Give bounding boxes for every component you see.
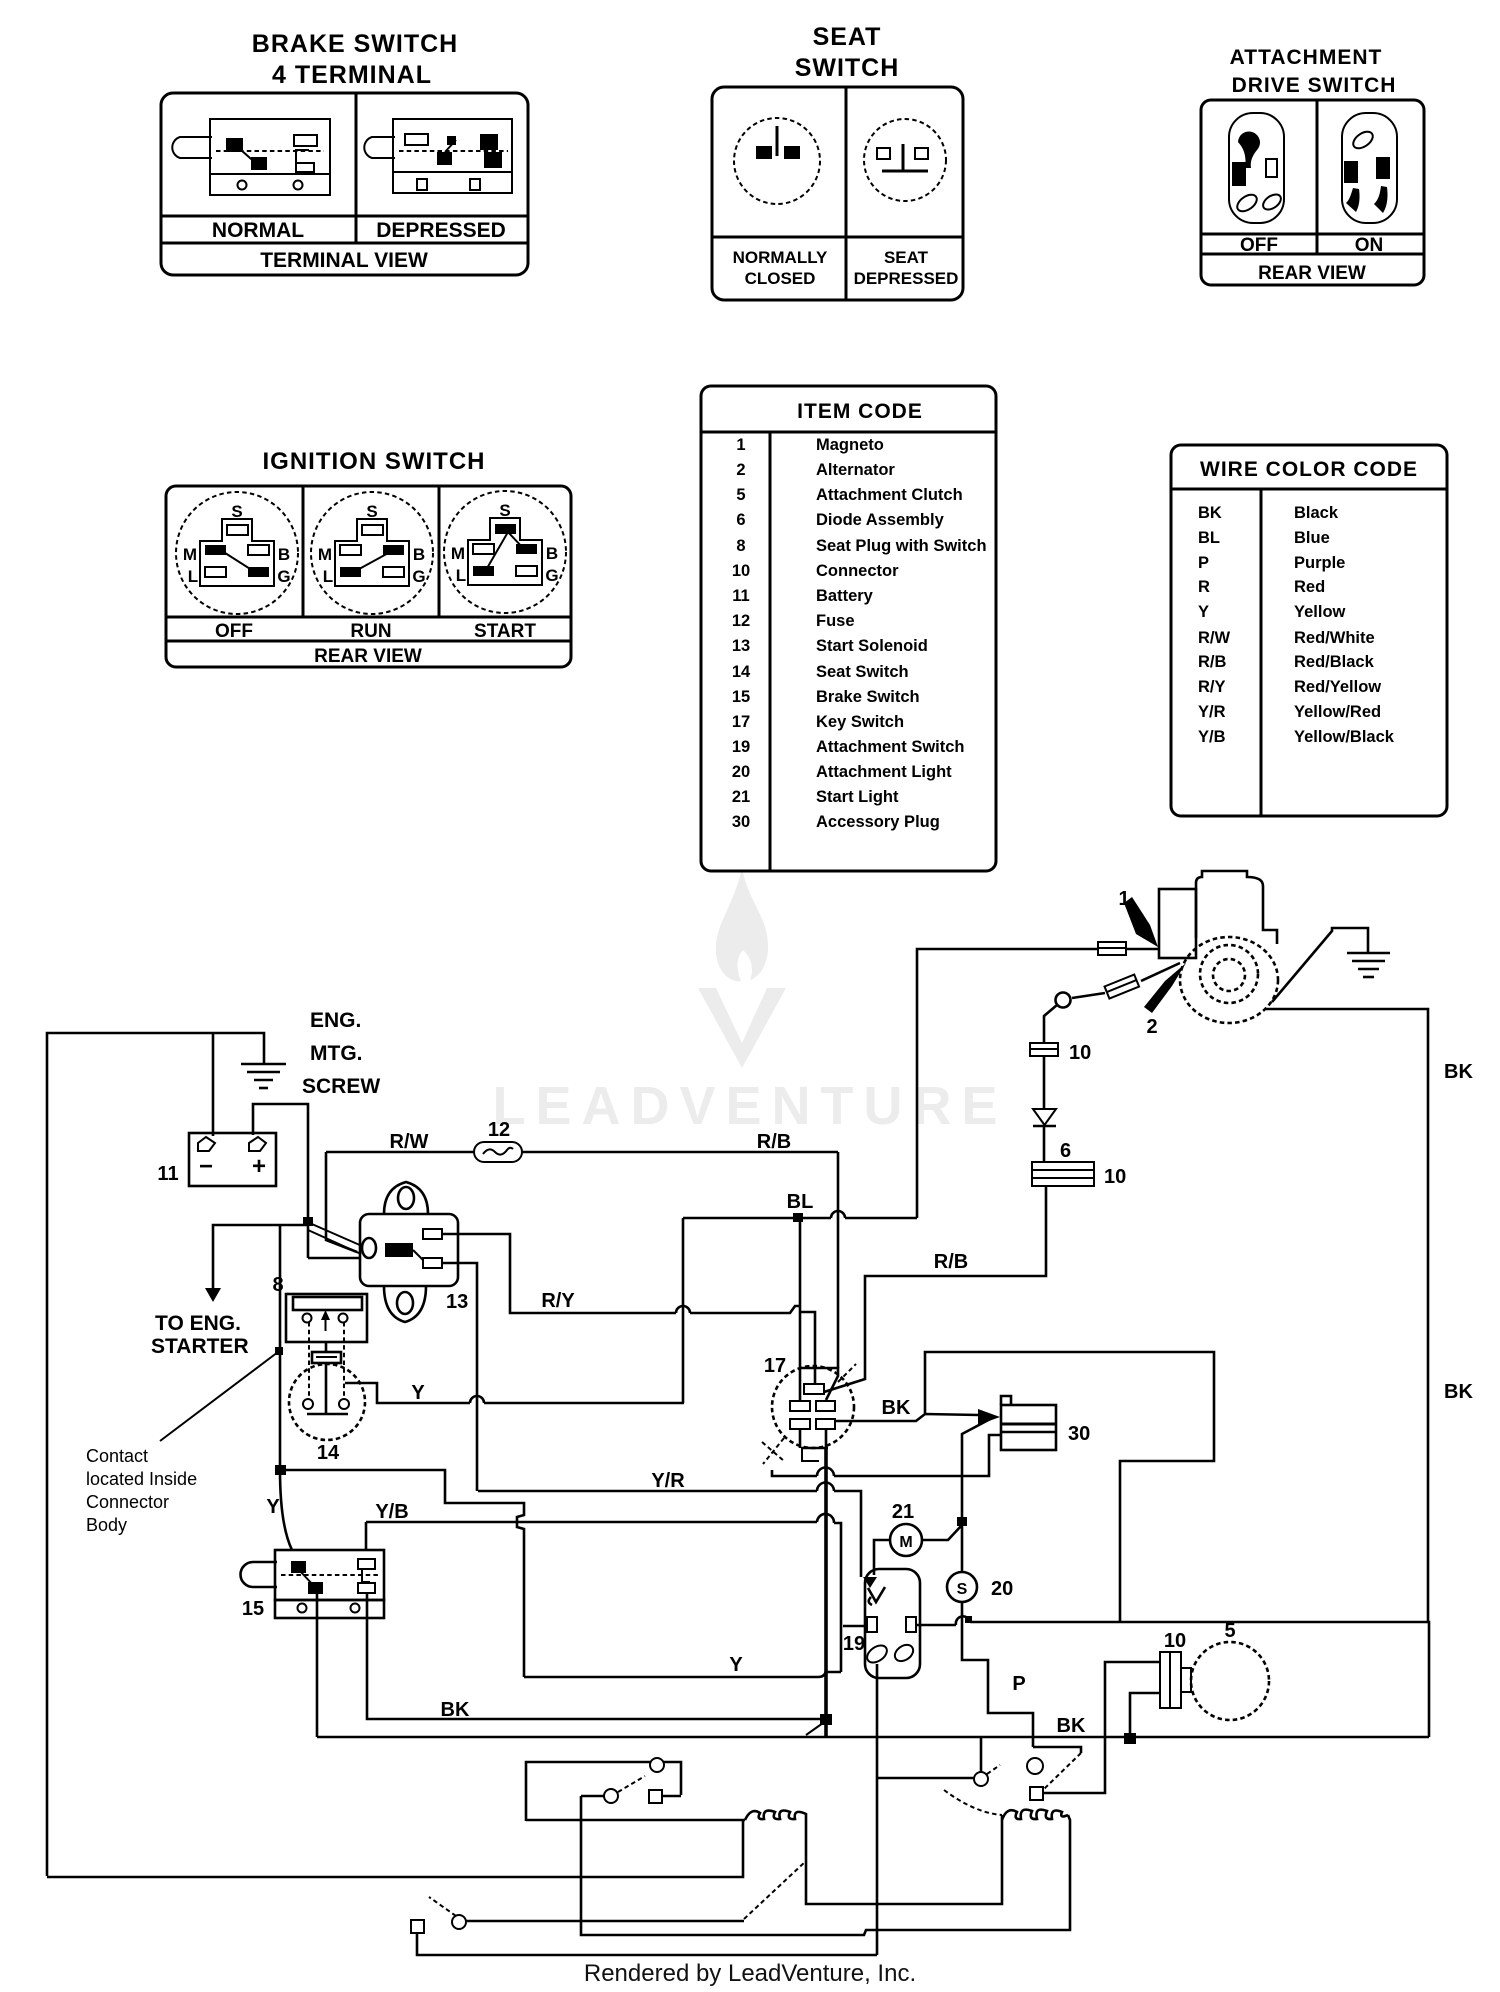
svg-text:30: 30 xyxy=(1068,1423,1090,1445)
wire interlock box bottom xyxy=(526,1819,745,1822)
wire diode to connector 10 lower xyxy=(1043,1126,1046,1162)
svg-text:OFF: OFF xyxy=(215,621,253,642)
svg-text:WIRE COLOR CODE: WIRE COLOR CODE xyxy=(1200,458,1418,481)
wire R/Y xyxy=(442,1234,800,1313)
wire accessory loop xyxy=(925,1352,1214,1622)
item code divider xyxy=(769,432,772,871)
wire coil left down xyxy=(806,1815,1002,1904)
connector 10 upper xyxy=(1030,1043,1058,1056)
wire Y bus xyxy=(524,1669,826,1677)
wire brake lower right BK xyxy=(367,1593,823,1719)
accessory plug 30 xyxy=(1001,1396,1056,1450)
wire color header line xyxy=(1171,488,1447,491)
panel box xyxy=(161,93,528,275)
svg-text:Magneto: Magneto xyxy=(816,436,884,454)
svg-text:5: 5 xyxy=(736,486,745,504)
svg-text:Attachment Light: Attachment Light xyxy=(816,763,952,781)
wire BK bus bottom xyxy=(317,1736,1429,1739)
svg-text:Blue: Blue xyxy=(1294,529,1330,547)
attachment switch OFF icon xyxy=(1229,113,1284,223)
hop Y/R over key ground xyxy=(817,1483,834,1492)
svg-text:Y: Y xyxy=(266,1496,280,1518)
svg-text:NORMAL: NORMAL xyxy=(212,219,304,242)
svg-text:Y/R: Y/R xyxy=(651,1470,685,1492)
engine flywheel hub xyxy=(1213,959,1245,991)
battery cable to solenoid xyxy=(305,1221,362,1254)
wire seat switch to Y bus xyxy=(280,1470,524,1677)
panel box xyxy=(1201,100,1424,285)
svg-text:BK: BK xyxy=(1057,1715,1086,1737)
interlock relay box left xyxy=(526,1758,681,1821)
diode 6 xyxy=(1033,1109,1056,1126)
alternator arrow xyxy=(1144,963,1186,1013)
wire BL to key switch xyxy=(798,1218,800,1401)
svg-text:REAR VIEW: REAR VIEW xyxy=(314,646,422,667)
brake switch NORMAL icon xyxy=(172,119,330,195)
hop shell wire over key ground xyxy=(817,1468,834,1477)
panel box xyxy=(166,486,571,667)
fuse 12 xyxy=(474,1142,522,1162)
svg-text:Y: Y xyxy=(411,1382,425,1404)
item code header line xyxy=(701,431,996,434)
svg-text:ATTACHMENT: ATTACHMENT xyxy=(1230,46,1383,69)
wire battery ground top xyxy=(47,1033,264,1876)
svg-text:M: M xyxy=(451,544,465,563)
wire R/B top xyxy=(837,1152,840,1368)
wire left bus bottom xyxy=(47,1820,743,1877)
wire BK to right interlock xyxy=(980,1737,983,1772)
wire solenoid coil feed xyxy=(308,1152,360,1258)
ignition RUN connector xyxy=(311,492,433,614)
svg-text:11: 11 xyxy=(157,1163,178,1185)
wire Y/B xyxy=(366,1522,869,1672)
svg-text:5: 5 xyxy=(1224,1620,1235,1642)
wire alternator to connector 10 xyxy=(1044,1005,1057,1043)
right interlock relay xyxy=(974,1747,1081,1800)
svg-text:M: M xyxy=(183,545,197,564)
arrow into accessory plug xyxy=(978,1409,1000,1425)
tilted connector on alternator wire xyxy=(1105,975,1140,999)
start solenoid 13 xyxy=(360,1182,458,1322)
svg-text:R/B: R/B xyxy=(757,1131,791,1153)
svg-text:Y: Y xyxy=(729,1654,743,1676)
svg-text:NORMALLY: NORMALLY xyxy=(733,248,828,267)
junction BL xyxy=(793,1213,803,1222)
coil right xyxy=(1002,1810,1068,1820)
svg-text:L: L xyxy=(188,567,198,586)
wire R/W xyxy=(326,1151,838,1154)
svg-text:10: 10 xyxy=(1164,1630,1186,1652)
svg-text:15: 15 xyxy=(732,688,750,706)
svg-text:Y/B: Y/B xyxy=(1198,728,1226,746)
panel divider xyxy=(355,93,358,243)
svg-text:Rendered by LeadVenture, Inc.: Rendered by LeadVenture, Inc. xyxy=(584,1960,916,1987)
attachment clutch connector 10 xyxy=(1160,1652,1191,1708)
svg-text:11: 11 xyxy=(732,587,749,605)
svg-text:located Inside: located Inside xyxy=(86,1469,197,1489)
wire bottom switch square return xyxy=(417,1930,877,1955)
dashed link to coil wire xyxy=(744,1861,806,1919)
junction start light xyxy=(957,1517,967,1526)
seat switch pins dashed xyxy=(309,1322,344,1398)
attachment switch ON icon xyxy=(1342,113,1397,223)
panel row lines xyxy=(166,616,571,619)
svg-text:CLOSED: CLOSED xyxy=(745,269,816,288)
wire to engine starter branch xyxy=(213,1225,308,1290)
svg-text:Accessory Plug: Accessory Plug xyxy=(816,813,940,831)
wire clutch lower to BK xyxy=(1130,1693,1160,1739)
hop Y over solenoid wire xyxy=(470,1396,484,1403)
svg-text:ENG.: ENG. xyxy=(310,1009,361,1032)
svg-text:21: 21 xyxy=(892,1501,914,1523)
svg-text:DEPRESSED: DEPRESSED xyxy=(376,219,506,242)
svg-text:Y/R: Y/R xyxy=(1198,703,1226,721)
svg-text:B: B xyxy=(413,545,425,564)
wire Y solenoid xyxy=(442,1263,477,1491)
svg-text:P: P xyxy=(1012,1673,1025,1695)
svg-text:MTG.: MTG. xyxy=(310,1042,363,1065)
wire R/B alternator branch xyxy=(824,1186,1046,1392)
item code box xyxy=(701,386,996,871)
svg-text:LEADVENTURE: LEADVENTURE xyxy=(492,1076,1007,1136)
battery 11 xyxy=(189,1133,276,1186)
svg-text:Y: Y xyxy=(1198,603,1209,621)
engine block xyxy=(1159,871,1277,958)
svg-text:Yellow/Red: Yellow/Red xyxy=(1294,703,1381,721)
svg-text:BK: BK xyxy=(1444,1381,1473,1403)
ignition START connector xyxy=(444,491,566,613)
alternator diagonal wire xyxy=(1072,963,1180,998)
svg-text:10: 10 xyxy=(732,562,750,580)
svg-text:BK: BK xyxy=(1444,1061,1473,1083)
svg-text:G: G xyxy=(277,567,290,586)
wire brake top right to Y/B xyxy=(365,1522,368,1550)
svg-text:S: S xyxy=(366,502,377,521)
wire attachment switch right pin xyxy=(916,1622,1427,1625)
svg-text:20: 20 xyxy=(991,1578,1013,1600)
svg-text:L: L xyxy=(456,566,466,585)
svg-text:14: 14 xyxy=(732,663,751,681)
attachment light 20 xyxy=(947,1572,977,1602)
svg-text:17: 17 xyxy=(732,713,750,731)
svg-text:TO ENG.: TO ENG. xyxy=(155,1312,241,1335)
svg-text:19: 19 xyxy=(843,1633,865,1655)
svg-text:4 TERMINAL: 4 TERMINAL xyxy=(272,61,432,89)
svg-text:Red/Yellow: Red/Yellow xyxy=(1294,678,1381,696)
ignition OFF connector xyxy=(176,492,298,614)
svg-text:Fuse: Fuse xyxy=(816,612,855,630)
wire start light branch xyxy=(962,1417,994,1573)
svg-text:13: 13 xyxy=(446,1291,468,1313)
svg-text:BL: BL xyxy=(787,1191,814,1213)
svg-text:8: 8 xyxy=(272,1274,283,1296)
svg-text:6: 6 xyxy=(1060,1140,1071,1162)
hop BL over R/B xyxy=(831,1211,845,1218)
seat plug receptacle bars xyxy=(312,1352,341,1363)
svg-text:IGNITION SWITCH: IGNITION SWITCH xyxy=(263,448,486,475)
svg-text:−: − xyxy=(199,1153,213,1180)
wire Y horizontal xyxy=(345,1383,684,1403)
svg-text:R/W: R/W xyxy=(390,1131,429,1153)
svg-text:Black: Black xyxy=(1294,504,1339,522)
wire bottom switch to coil xyxy=(466,1920,744,1923)
svg-text:R/B: R/B xyxy=(1198,653,1227,671)
svg-text:STARTER: STARTER xyxy=(151,1335,249,1358)
svg-text:R: R xyxy=(1198,578,1210,596)
tap key ground to BK bus xyxy=(806,1723,823,1735)
svg-text:R/Y: R/Y xyxy=(541,1290,575,1312)
wire key ground vertical xyxy=(824,1449,828,1736)
svg-text:BK: BK xyxy=(1198,504,1222,522)
magneto arrow xyxy=(1124,897,1158,947)
svg-text:Yellow/Black: Yellow/Black xyxy=(1294,728,1395,746)
svg-text:M: M xyxy=(318,545,332,564)
wire color code box xyxy=(1171,445,1447,816)
svg-text:M: M xyxy=(899,1534,912,1551)
svg-text:Start Solenoid: Start Solenoid xyxy=(816,637,928,655)
svg-text:ITEM CODE: ITEM CODE xyxy=(797,400,923,423)
seat plug 8 xyxy=(286,1294,367,1342)
wire P xyxy=(962,1602,1033,1747)
ground symbol engine xyxy=(1347,953,1390,977)
wire start light right xyxy=(922,1525,962,1540)
note pointer line xyxy=(160,1352,278,1441)
svg-text:RUN: RUN xyxy=(350,621,391,642)
svg-text:G: G xyxy=(545,566,558,585)
dashes right interlock shell xyxy=(944,1790,1002,1815)
svg-text:Start Light: Start Light xyxy=(816,788,899,806)
svg-text:Connector: Connector xyxy=(86,1492,169,1512)
svg-text:S: S xyxy=(231,502,242,521)
wire connector to diode xyxy=(1043,1056,1046,1108)
wire coil right down xyxy=(581,1796,1070,1935)
svg-text:R/W: R/W xyxy=(1198,629,1231,647)
panel row lines xyxy=(161,215,528,218)
svg-text:SCREW: SCREW xyxy=(302,1075,380,1098)
svg-text:Body: Body xyxy=(86,1515,127,1535)
engine ground wire xyxy=(1272,928,1368,1002)
svg-text:TERMINAL VIEW: TERMINAL VIEW xyxy=(260,249,428,272)
svg-text:Attachment Switch: Attachment Switch xyxy=(816,738,965,756)
svg-text:30: 30 xyxy=(732,813,750,831)
svg-text:BRAKE SWITCH: BRAKE SWITCH xyxy=(252,30,458,58)
svg-text:S: S xyxy=(499,501,510,520)
svg-text:6: 6 xyxy=(736,511,745,529)
svg-text:S: S xyxy=(957,1581,968,1598)
panel divider xyxy=(1316,100,1319,254)
svg-text:Contact: Contact xyxy=(86,1446,148,1466)
svg-text:B: B xyxy=(546,544,558,563)
svg-text:Brake Switch: Brake Switch xyxy=(816,688,920,706)
hop Y/B over key ground xyxy=(817,1514,834,1523)
attachment clutch 5 xyxy=(1191,1642,1269,1720)
svg-text:Diode Assembly: Diode Assembly xyxy=(816,511,945,529)
note contact located inside connector body xyxy=(86,1446,197,1535)
panel dividers xyxy=(302,486,305,617)
svg-text:R/B: R/B xyxy=(934,1251,968,1273)
watermark logo V xyxy=(698,988,786,1068)
svg-text:REAR VIEW: REAR VIEW xyxy=(1258,263,1366,284)
junction battery positive xyxy=(303,1217,313,1226)
watermark logo flame xyxy=(716,868,768,981)
panel box xyxy=(712,87,963,300)
wire R/B to key xyxy=(800,1368,838,1400)
wire clutch upper xyxy=(1043,1662,1160,1793)
brake switch DEPRESSED icon xyxy=(364,119,512,193)
wire seat plug stem xyxy=(325,1342,328,1415)
svg-text:+: + xyxy=(252,1153,266,1180)
svg-text:Seat Plug with Switch: Seat Plug with Switch xyxy=(816,537,987,555)
svg-text:Red/White: Red/White xyxy=(1294,629,1375,647)
hop att pin over light wire xyxy=(956,1616,970,1625)
svg-text:P: P xyxy=(1198,554,1209,572)
svg-text:BK: BK xyxy=(882,1397,911,1419)
svg-text:12: 12 xyxy=(732,612,750,630)
svg-text:BL: BL xyxy=(1198,529,1220,547)
svg-text:SWITCH: SWITCH xyxy=(795,54,900,82)
wire brake lower left BK xyxy=(316,1594,319,1737)
svg-text:ON: ON xyxy=(1355,235,1384,256)
svg-text:BK: BK xyxy=(441,1699,470,1721)
svg-text:Red/Black: Red/Black xyxy=(1294,653,1375,671)
connector 10 lower xyxy=(1032,1162,1094,1186)
wire start light left xyxy=(874,1540,890,1575)
svg-text:Battery: Battery xyxy=(816,587,874,605)
svg-text:Alternator: Alternator xyxy=(816,461,895,479)
svg-text:13: 13 xyxy=(732,637,750,655)
svg-text:14: 14 xyxy=(317,1442,340,1464)
svg-text:DEPRESSED: DEPRESSED xyxy=(854,269,959,288)
panel divider xyxy=(845,87,848,300)
svg-text:2: 2 xyxy=(736,461,745,479)
wire magneto feed horizontal xyxy=(917,949,1159,1218)
hop R/Y over BL xyxy=(676,1306,690,1313)
junction key ground xyxy=(820,1714,832,1725)
svg-text:10: 10 xyxy=(1104,1166,1126,1188)
svg-text:G: G xyxy=(412,567,425,586)
wire att switch left pin riser xyxy=(825,1449,828,1677)
item code rows xyxy=(732,436,987,831)
wire accessory lower to key shell xyxy=(772,1435,1001,1476)
svg-text:Attachment Clutch: Attachment Clutch xyxy=(816,486,963,504)
svg-text:Red: Red xyxy=(1294,578,1325,596)
bottom switch xyxy=(411,1897,466,1933)
starter arrow xyxy=(205,1288,221,1302)
svg-text:Purple: Purple xyxy=(1294,554,1345,572)
svg-text:B: B xyxy=(278,545,290,564)
svg-text:Y/B: Y/B xyxy=(375,1501,408,1523)
wire color divider xyxy=(1260,489,1263,816)
wire Y/R xyxy=(478,1491,861,1577)
svg-text:Seat Switch: Seat Switch xyxy=(816,663,909,681)
svg-text:Yellow: Yellow xyxy=(1294,603,1346,621)
wire key top pin feed xyxy=(800,1312,815,1384)
svg-text:8: 8 xyxy=(736,537,745,555)
svg-text:Key Switch: Key Switch xyxy=(816,713,904,731)
svg-text:2: 2 xyxy=(1146,1016,1157,1038)
brake switch 15 xyxy=(241,1550,385,1618)
svg-text:19: 19 xyxy=(732,738,750,756)
wire BL xyxy=(683,1218,917,1403)
wire attachment switch bottom xyxy=(877,1664,974,1955)
seat switch seat depressed icon xyxy=(864,119,946,201)
wire battery positive xyxy=(253,1104,308,1258)
coil left xyxy=(745,1811,806,1820)
panel row line xyxy=(712,236,963,239)
svg-text:12: 12 xyxy=(488,1119,510,1141)
ring terminal on alternator wire xyxy=(1056,993,1071,1008)
svg-text:R/Y: R/Y xyxy=(1198,678,1226,696)
svg-text:L: L xyxy=(323,567,333,586)
svg-text:10: 10 xyxy=(1069,1042,1091,1064)
seat switch normally closed icon xyxy=(734,118,820,204)
panel row lines xyxy=(1201,233,1424,236)
svg-text:1: 1 xyxy=(736,436,745,454)
wire battery negative xyxy=(212,1033,215,1136)
wire color rows xyxy=(1198,504,1395,746)
svg-text:SEAT: SEAT xyxy=(884,248,929,267)
svg-text:START: START xyxy=(474,621,536,642)
svg-text:17: 17 xyxy=(764,1355,786,1377)
junction seat switch xyxy=(275,1465,286,1475)
junction att pin hop xyxy=(965,1616,972,1623)
start light 21 xyxy=(890,1524,922,1556)
seat switch 14 xyxy=(289,1364,365,1440)
wire BK engine to right edge xyxy=(1266,1009,1429,1737)
wire BK key to accessory plug xyxy=(834,1414,979,1421)
svg-text:15: 15 xyxy=(242,1598,264,1620)
wire Y vertical seat to brake xyxy=(280,1225,292,1550)
engine flywheel outer xyxy=(1180,937,1278,1023)
svg-text:SEAT: SEAT xyxy=(813,23,882,51)
attachment switch 19 xyxy=(863,1569,920,1678)
svg-text:DRIVE SWITCH: DRIVE SWITCH xyxy=(1232,74,1397,97)
connector on magneto wire xyxy=(1098,942,1126,955)
engine flywheel ring xyxy=(1200,945,1258,1003)
svg-text:OFF: OFF xyxy=(1240,235,1278,256)
svg-text:Connector: Connector xyxy=(816,562,899,580)
ground symbol battery xyxy=(241,1064,286,1088)
key switch 17 xyxy=(762,1364,856,1464)
svg-text:20: 20 xyxy=(732,763,750,781)
junction clutch BK xyxy=(1124,1733,1136,1744)
svg-text:21: 21 xyxy=(732,788,750,806)
